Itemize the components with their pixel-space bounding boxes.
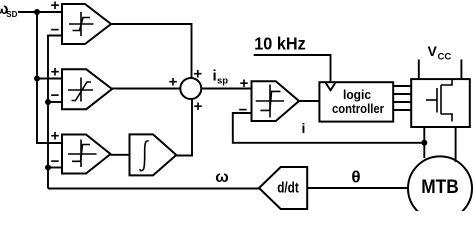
- svg-text:SD: SD: [6, 10, 17, 19]
- logic controller box U-lc: [319, 82, 393, 121]
- symbol: saturation characteristic inside B1: [69, 12, 94, 36]
- wire B3 minus input: [48, 167, 62, 169]
- svg-text:θ: θ: [351, 168, 360, 187]
- comparator block B4 (current hysteresis): [252, 81, 300, 121]
- integrator block U-int: [130, 134, 177, 175]
- label Vcc: [428, 43, 452, 62]
- wire Vcc supply stub right: [460, 60, 462, 80]
- wire B2 plus input: [37, 78, 62, 80]
- wire B4 minus feedback loop: [233, 113, 424, 143]
- svg-text:+: +: [51, 128, 60, 145]
- power stage box U-ps: [411, 79, 470, 127]
- svg-text:logic: logic: [343, 87, 371, 102]
- wire omega_SD input: [18, 11, 62, 13]
- wire rail A (omega_SD distribution): [37, 12, 62, 143]
- symbol: hysteresis characteristic inside B4: [256, 85, 284, 118]
- motor MTB: [408, 156, 472, 220]
- wire B2 output to summing node: [112, 88, 180, 90]
- wire B3 output to integrator: [111, 154, 130, 156]
- comparator block B1 (hysteresis controller): [62, 4, 111, 44]
- wire summing output i_sp to B4: [201, 88, 251, 90]
- node: junction dot rail B to B3 minus: [45, 165, 51, 171]
- svg-text:+: +: [169, 74, 178, 91]
- wire omega from d/dt to rail B: [48, 188, 259, 190]
- label omega_SD: [0, 1, 18, 19]
- svg-text:i: i: [302, 120, 306, 136]
- symbol: open arrowhead into logic controller: [326, 83, 335, 90]
- wire gate drive line 3: [393, 101, 411, 103]
- label logic controller: [332, 87, 384, 116]
- transistor Q1 symbol: [426, 79, 452, 121]
- wire integrator output to summing node: [176, 99, 192, 156]
- svg-text:+: +: [51, 0, 60, 14]
- differentiator block d/dt: [259, 167, 307, 209]
- svg-text:−: −: [51, 87, 60, 104]
- svg-text:+: +: [51, 64, 60, 81]
- svg-text:d/dt: d/dt: [277, 180, 299, 197]
- symbol: proportional saturation inside B2: [68, 78, 93, 102]
- label i_sp: [213, 68, 229, 87]
- svg-text:CC: CC: [438, 51, 452, 62]
- wire B1 output to summing node: [111, 24, 192, 78]
- comparator block B3 (hysteresis): [62, 135, 111, 174]
- svg-text:10 kHz: 10 kHz: [254, 33, 306, 53]
- svg-text:−: −: [239, 102, 248, 119]
- wire B4 output to logic controller: [299, 100, 319, 102]
- proportional block B2 (slope saturation): [62, 69, 112, 109]
- wire B2 minus input: [48, 101, 62, 103]
- symbol: saturation characteristic inside B3: [68, 140, 97, 168]
- svg-text:sp: sp: [217, 76, 228, 87]
- svg-text:−: −: [51, 153, 60, 170]
- node: junction dot on omega_SD wire: [34, 9, 40, 15]
- svg-text:MTB: MTB: [421, 177, 459, 198]
- wire Vcc supply stub left: [418, 60, 420, 80]
- wire gate drive line 4: [393, 109, 411, 111]
- svg-text:−: −: [51, 22, 60, 39]
- wire theta from motor to d/dt: [307, 187, 408, 189]
- wire 10 kHz clock line: [254, 55, 331, 82]
- symbol: integral sign: [140, 141, 149, 171]
- wire rail B (omega feedback): [48, 36, 62, 189]
- svg-text:+: +: [194, 98, 203, 115]
- svg-text:+: +: [240, 75, 249, 92]
- svg-text:V: V: [428, 43, 438, 59]
- node: junction dot current sense: [421, 140, 427, 146]
- wire power stage to motor right leg: [455, 127, 457, 162]
- node: junction dot rail A to B2 plus: [34, 76, 40, 82]
- node: junction dot rail B to B2 minus: [45, 99, 51, 105]
- wire gate drive line 1: [393, 85, 411, 87]
- wire power stage to motor left leg: [423, 127, 425, 158]
- svg-text:ω: ω: [215, 169, 229, 186]
- summing junction node: [180, 78, 201, 99]
- svg-text:controller: controller: [332, 101, 384, 116]
- wire gate drive line 2: [393, 93, 411, 95]
